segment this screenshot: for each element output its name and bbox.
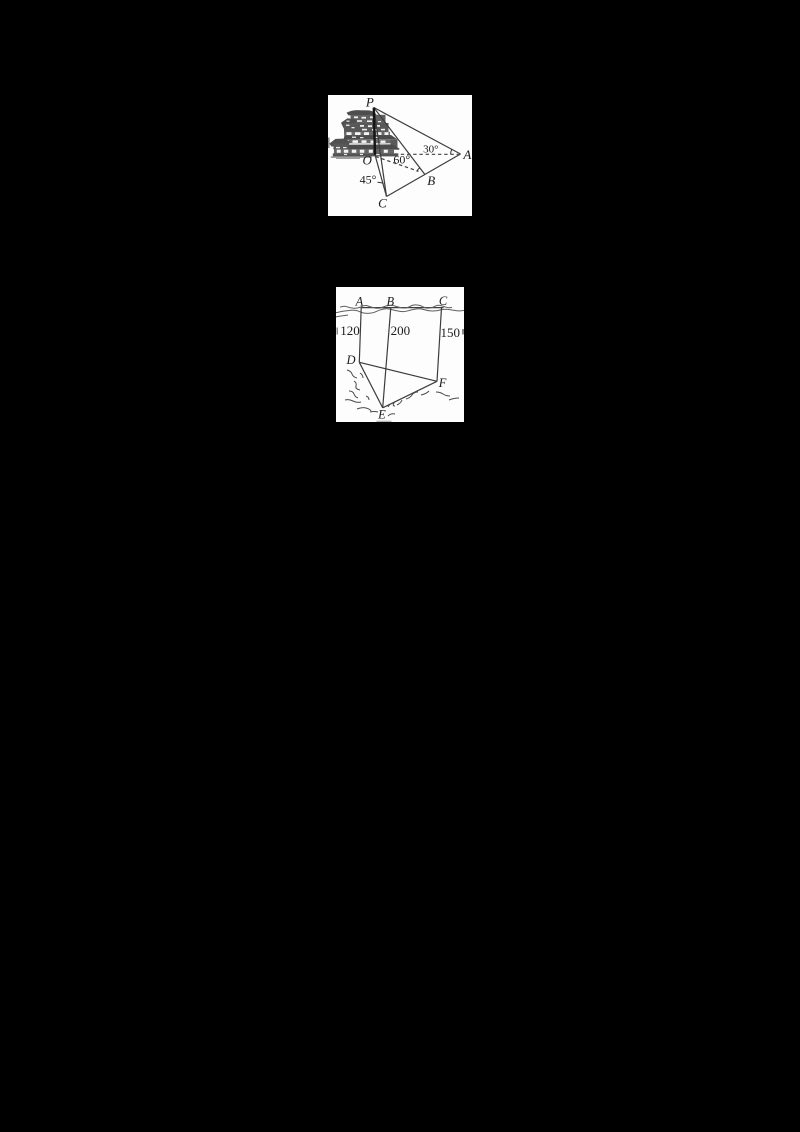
scribble L3 bbox=[349, 391, 358, 398]
pagoda ground strokes bbox=[331, 156, 372, 157]
pagoda mid eave bbox=[344, 135, 398, 140]
line P-C bbox=[374, 108, 387, 197]
svg-text:P: P bbox=[365, 95, 374, 110]
figure panel 2 (well depth problem) bbox=[336, 287, 464, 422]
scribble L2 bbox=[354, 381, 360, 390]
pagoda left edge eave tip bbox=[328, 138, 330, 149]
scribble mid EF 1 bbox=[406, 392, 418, 399]
angle arc at B (60°) bbox=[417, 168, 420, 172]
scribble L4 bbox=[345, 400, 361, 403]
line C-A (through B) bbox=[387, 154, 461, 197]
pagoda colonnade white gaps bbox=[337, 150, 388, 153]
pagoda second band speckles bbox=[360, 125, 385, 131]
svg-text:150: 150 bbox=[441, 325, 461, 340]
svg-text:C: C bbox=[439, 294, 448, 308]
terrain scribbles left group bbox=[345, 370, 459, 416]
scribble below F 1 bbox=[436, 392, 450, 396]
wavy water line lower bbox=[333, 309, 464, 314]
wavy water line upper bbox=[340, 305, 452, 308]
tower line P-O (thick) bbox=[374, 108, 375, 155]
pagoda gallery row 2 bbox=[340, 140, 395, 143]
pagoda second band bbox=[344, 123, 389, 132]
scribble right of E 1 bbox=[388, 403, 395, 407]
pagoda right rear corner bbox=[391, 140, 398, 150]
svg-text:30°: 30° bbox=[423, 143, 438, 155]
svg-text:E: E bbox=[377, 407, 386, 421]
scribble L1 bbox=[347, 370, 357, 378]
scribble near E left extra bbox=[366, 396, 369, 400]
edge tick right of 150 bbox=[462, 329, 464, 335]
pagoda upper wall bbox=[351, 115, 386, 123]
line E-F bbox=[383, 381, 437, 408]
pagoda left tall roof bbox=[341, 118, 357, 130]
svg-text:200: 200 bbox=[391, 323, 411, 338]
svg-text:D: D bbox=[345, 353, 355, 367]
line P-B bbox=[374, 108, 425, 175]
edge tick left of 120 bbox=[337, 328, 339, 335]
figure panel 1 (tower elevation problem) bbox=[328, 95, 472, 216]
pagoda gallery row 1 white gaps bbox=[347, 132, 389, 135]
scribble dash left of E bbox=[370, 411, 378, 414]
pagoda gallery row 1 bbox=[344, 132, 390, 136]
dashed line O-A bbox=[376, 153, 459, 155]
line O-C bbox=[375, 155, 387, 197]
line D-F bbox=[359, 362, 437, 381]
ground line A-C bbox=[361, 307, 444, 309]
angle tick at C (45°) bbox=[378, 182, 384, 183]
scribble DE mid extra bbox=[360, 373, 363, 378]
svg-text:120: 120 bbox=[340, 323, 360, 338]
svg-text:B: B bbox=[427, 173, 435, 188]
pagoda lower wall fill bbox=[334, 144, 349, 150]
scribble right of E 2 bbox=[397, 400, 402, 405]
svg-text:A: A bbox=[462, 147, 471, 162]
faint smudge at bottom edge bbox=[377, 421, 392, 423]
pagoda texture speckles bbox=[336, 121, 381, 156]
line A-D bbox=[359, 308, 361, 363]
pagoda broad lower eave bbox=[333, 144, 400, 149]
wavy water stroke bottom-left bbox=[332, 315, 348, 318]
pagoda drawing bbox=[328, 110, 400, 159]
svg-text:C: C bbox=[378, 195, 387, 210]
line B-E bbox=[383, 308, 391, 408]
pagoda upper wall speckles bbox=[354, 116, 374, 122]
svg-text:F: F bbox=[438, 376, 447, 390]
scribble below E bbox=[388, 414, 395, 416]
scribble mid EF 2 bbox=[421, 391, 429, 395]
line P-A bbox=[374, 108, 461, 155]
angle arc at A (30°) bbox=[451, 149, 452, 154]
pagoda base band bbox=[333, 153, 399, 156]
scribble below-left of E bbox=[357, 408, 371, 411]
scribble below F 2 bbox=[449, 398, 459, 400]
line D-E bbox=[359, 362, 382, 408]
pagoda colonnade row bbox=[334, 149, 394, 153]
dashed line O-B bbox=[376, 157, 419, 172]
pagoda gallery row 2 white gaps bbox=[345, 140, 386, 143]
pagoda left annex roof bbox=[329, 139, 350, 147]
svg-text:B: B bbox=[386, 294, 394, 308]
svg-text:A: A bbox=[355, 294, 364, 308]
svg-text:45°: 45° bbox=[360, 172, 377, 186]
svg-text:O: O bbox=[363, 152, 373, 167]
svg-text:60°: 60° bbox=[393, 153, 410, 167]
pagoda top roof bbox=[347, 110, 378, 115]
line C-F bbox=[437, 308, 442, 382]
